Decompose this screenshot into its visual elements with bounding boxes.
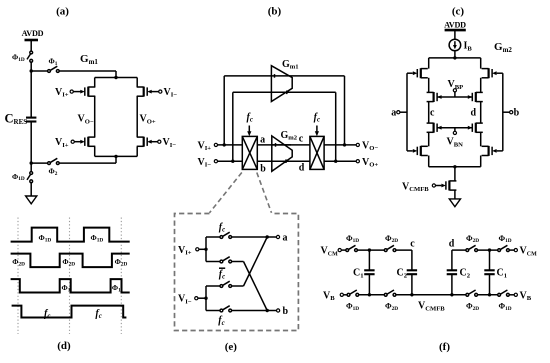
svg-text:b: b [283, 306, 289, 317]
svg-text:c: c [410, 239, 415, 250]
svg-text:(c): (c) [452, 6, 465, 18]
svg-text:AVDD: AVDD [22, 29, 44, 38]
svg-text:a: a [283, 233, 288, 244]
svg-text:b: b [260, 164, 266, 175]
svg-text:(d): (d) [57, 340, 71, 352]
svg-text:(b): (b) [268, 6, 282, 18]
svg-text:AVDD: AVDD [444, 20, 466, 29]
svg-text:(a): (a) [56, 6, 69, 18]
svg-text:d: d [471, 108, 477, 119]
svg-text:c: c [299, 133, 304, 144]
svg-text:a: a [260, 135, 265, 146]
svg-text:b: b [514, 108, 520, 119]
svg-text:a: a [391, 108, 396, 119]
svg-text:(f): (f) [439, 341, 450, 353]
svg-text:d: d [449, 239, 455, 250]
svg-text:c: c [430, 108, 435, 119]
svg-text:d: d [299, 162, 305, 173]
svg-text:(e): (e) [225, 341, 238, 353]
